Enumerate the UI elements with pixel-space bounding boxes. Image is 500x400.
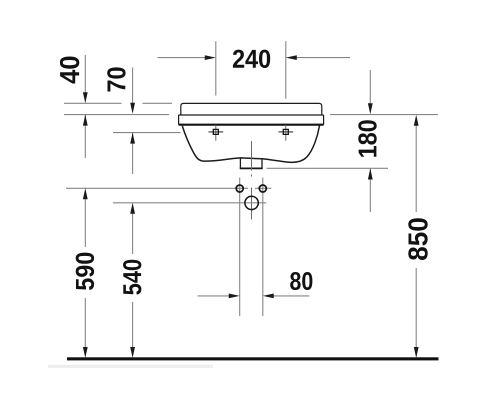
540 arrowheads [130, 203, 135, 358]
80 dimension line [198, 295, 310, 297]
label 850 [408, 218, 427, 260]
850 dimension line [415, 125, 417, 349]
rim-top extension line A [64, 102, 172, 104]
fixing hole cross left [215, 125, 217, 141]
240 dimension tails [158, 57, 351, 59]
right extension line D [330, 114, 438, 116]
240 arrowheads [205, 55, 297, 60]
850 arrowheads [414, 115, 419, 358]
label 40 [60, 56, 79, 83]
bolt hole circle left [236, 185, 243, 192]
40 dimension line upper [84, 55, 86, 158]
70 arrowheads [130, 103, 135, 144]
590 arrowheads [83, 188, 88, 358]
label 80 [290, 272, 312, 290]
label 240 [233, 50, 270, 68]
floor line [67, 357, 439, 360]
bolt hole centerline left (80 extension) [239, 178, 241, 317]
label 590 [76, 253, 94, 290]
washbasin rim band bottom edge [179, 124, 324, 126]
fixing hole cross right [285, 125, 287, 141]
drain-level extension line (540) [113, 202, 266, 204]
70 dimension line [132, 68, 134, 175]
label 180 [358, 120, 376, 157]
label 540 [123, 260, 141, 295]
washbasin top plate [181, 103, 322, 115]
washbasin rim band [179, 115, 324, 125]
80 arrowheads [229, 294, 274, 299]
540 dimension line [132, 213, 134, 348]
floor shadow [48, 365, 213, 368]
rim-mid extension line B [64, 114, 169, 116]
240 extension line right [285, 41, 287, 99]
center axis line [251, 141, 253, 220]
590 dimension line [84, 198, 86, 348]
bolt hole circle right [259, 185, 266, 192]
right extension line E [267, 167, 389, 169]
fixing-level extension line C [113, 132, 181, 134]
drain spout [240, 158, 262, 168]
washbasin bowl outline [182, 125, 319, 162]
40 arrowheads [83, 92, 88, 125]
180 arrowheads [368, 103, 373, 179]
label 70 [107, 67, 125, 91]
240 extension line left [215, 41, 217, 95]
bolt hole centerline right (80 extension) [262, 178, 264, 317]
bolt-level extension line (590) [66, 187, 248, 189]
180 dimension line [369, 70, 371, 212]
bolt right h-centerline [255, 187, 271, 189]
drain circle [245, 196, 258, 209]
